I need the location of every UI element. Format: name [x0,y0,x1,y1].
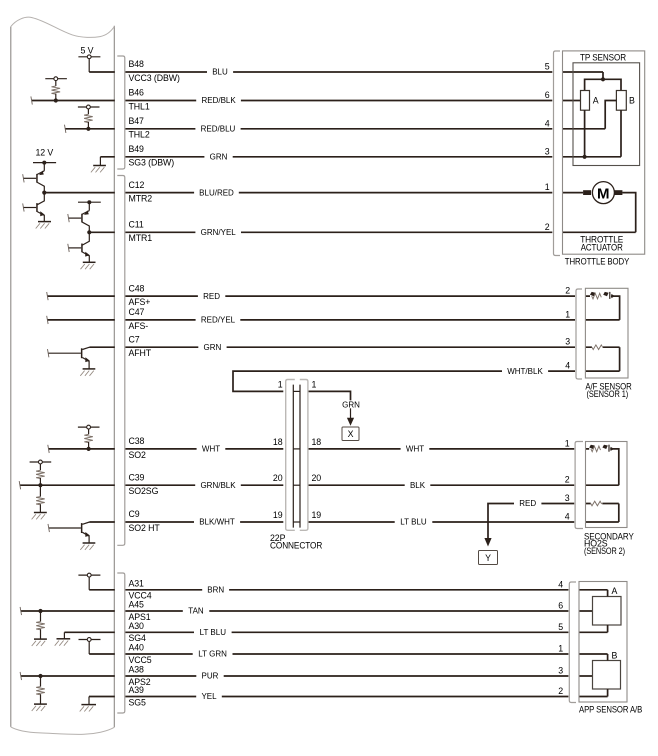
svg-text:BLU/RED: BLU/RED [199,188,234,197]
svg-text:X: X [348,429,354,439]
ground for Q4 [81,262,96,269]
wire color BLK [405,481,431,489]
SO2 resistor [84,434,93,442]
svg-text:RED: RED [519,499,536,508]
svg-text:WHT/BLK: WHT/BLK [507,367,543,376]
wire color RED/YEL [196,316,241,324]
CONNECTOR BRACKETS [117,51,583,713]
svg-text:C47: C47 [129,307,145,317]
wire end marker C39 [19,481,20,489]
wire color LT BLU (HO2S) [395,518,433,526]
wire RED row y=503.5 with elbow to Y arrow [488,504,619,539]
wire C47 AFS- RED/YEL row y=319.9 [47,319,619,321]
svg-text:B47: B47 [129,116,145,126]
A/F sensor connector bracket [576,289,582,379]
APP sensor B element [593,661,621,690]
svg-text:TP SENSOR: TP SENSOR [580,52,626,62]
SO2SG lower resistor [39,485,41,496]
APP B bottom lead [607,689,609,697]
TP bottom bus from pin3 row [585,110,621,157]
wire C12 MTR2 BLU/RED row y=192.6 [44,192,583,194]
secondary HO2S connector bracket [575,442,583,529]
svg-text:VCC5: VCC5 [129,655,152,665]
5V power symbol [78,55,100,72]
ground for APS1 [32,639,47,646]
wire B46 THL1 RED/BLK row y=100.5 [32,100,581,102]
wire end marker A45 [20,607,21,615]
svg-text:2: 2 [565,286,570,296]
throttle body connector bracket [554,51,561,256]
svg-text:C9: C9 [129,509,140,519]
VCC5 power symbol [79,638,101,654]
TP sensor top bus [585,72,621,91]
svg-text:4: 4 [565,512,570,522]
ECM INTERNALS [19,55,106,712]
A/F sensor cell (pin2-pin1 loop) [590,292,620,320]
APP sensor connector bracket [569,582,576,703]
22P pin 1 tick [293,390,300,392]
wire color RED/BLK [196,96,241,104]
svg-text:PUR: PUR [202,672,219,681]
svg-text:1: 1 [545,182,550,192]
RIGHT BOXES [563,51,645,702]
svg-text:BRN: BRN [207,586,224,595]
svg-text:C12: C12 [129,180,145,190]
svg-text:A40: A40 [129,643,145,653]
svg-text:C39: C39 [129,472,145,482]
svg-text:ACTUATOR: ACTUATOR [581,242,623,252]
node junction on C38 [87,447,91,451]
svg-text:6: 6 [545,90,550,100]
svg-text:B: B [629,96,635,106]
wire C38 SO2 WHT row y=448.9 [49,448,590,450]
svg-text:BLK: BLK [410,481,426,490]
Y reference box [479,551,498,565]
ground for Q6 [80,543,95,550]
wire color LT GRN [193,650,233,658]
wire C48 AFS+ RED row y=296.1 [47,295,590,297]
22P pin 20 tick [293,484,300,486]
svg-text:A: A [593,96,599,106]
TP wiper B link from pin4 row [605,101,616,129]
motor return wire to pin2 row [622,193,635,233]
wire A38 APS2 PUR row y=676 [21,675,593,677]
wire color BLU/RED [194,189,239,197]
THL1 resistor [52,86,61,94]
svg-text:APP SENSOR A/B: APP SENSOR A/B [579,705,642,715]
svg-text:GRN: GRN [204,343,222,352]
APP B top lead [607,654,609,661]
wire A39 SG5 YEL row y=696.5 [89,696,608,698]
node junction on C39 [38,483,42,487]
svg-text:3: 3 [565,493,570,503]
APP A top lead [607,590,609,597]
svg-text:THL1: THL1 [129,101,150,111]
svg-text:19: 19 [273,510,283,520]
svg-text:GRN/BLK: GRN/BLK [200,481,236,490]
svg-text:GRN: GRN [342,400,360,409]
node on TP bottom bus [583,155,587,159]
resistor B (TP sensor) [616,91,626,111]
GRN label on X drop [341,400,361,408]
APS2 pull-down resistor [38,674,42,678]
wire end marker C38 [48,445,49,453]
SG3 ground [91,157,106,173]
node junction on B47 [86,127,90,131]
wire color GRN [204,153,232,161]
svg-text:MTR2: MTR2 [129,194,153,204]
wire color YEL [196,692,222,700]
svg-text:1: 1 [565,438,570,448]
svg-text:Y: Y [485,553,491,563]
svg-text:MTR1: MTR1 [129,233,153,243]
svg-text:20: 20 [312,473,322,483]
svg-text:B48: B48 [129,59,145,69]
svg-text:A45: A45 [129,600,145,610]
svg-text:M: M [597,185,610,202]
HO2S heater element [591,501,602,506]
APP sensor A element [593,597,622,626]
22P pin 19 tick [293,521,300,523]
ground for Q5 [80,369,95,376]
svg-text:4: 4 [565,361,570,371]
svg-text:WHT: WHT [202,445,220,454]
svg-text:C38: C38 [129,436,145,446]
svg-text:B46: B46 [129,88,145,98]
A/F heater element [592,345,603,350]
svg-text:YEL: YEL [201,692,217,701]
wire color RED/BLU [195,125,240,133]
wire B49 SG3 GRN row y=156.8 [100,156,621,158]
svg-text:A39: A39 [129,685,145,695]
wire color WHT left [197,445,226,453]
wire A40 VCC5 LT-GRN row y=654 [89,653,607,655]
node junction on C11 [87,230,91,234]
wire color GRN (AFHT) [198,343,226,351]
APP SENSOR box [579,582,627,703]
resistor A (TP sensor) [581,91,590,111]
THL1 pull-up: power symbol [45,77,67,86]
wire color PUR [196,672,223,680]
svg-text:2: 2 [558,686,563,696]
wire B47 THL2 RED/BLU row y=128.8 [65,128,605,130]
12V power bar (MTR1 pair) [78,200,101,210]
wire color WHT/BLK [502,367,548,375]
svg-text:BLK/WHT: BLK/WHT [199,518,235,527]
svg-text:C7: C7 [129,334,140,344]
wire color RED [198,292,225,300]
transistor Q4 (NPN, MTR1 low side) [68,232,90,262]
svg-text:GRN: GRN [210,153,228,162]
svg-text:2: 2 [565,475,570,485]
TP SENSOR inner box [573,63,640,166]
svg-text:SG5: SG5 [129,697,147,707]
wire color GRN/YEL [195,228,241,236]
svg-text:SO2SG: SO2SG [129,486,159,496]
svg-text:C48: C48 [129,283,145,293]
transistor Q6 (NPN, SO2HT driver) [48,522,90,543]
THL2 resistor [84,114,93,122]
svg-text:RED/BLK: RED/BLK [201,96,236,105]
transistor Q5 (NPN, AFHT driver) [48,347,90,369]
svg-text:A31: A31 [129,578,145,588]
wire color LT BLU (APP) [194,628,232,636]
wire C11 MTR1 GRN/YEL row y=232.3 [89,231,635,233]
A/F heater return [619,347,621,371]
22P connector right shell [300,380,308,531]
svg-text:A38: A38 [129,665,145,675]
APP A bottom lead [607,625,609,632]
wire color WHT right [401,445,430,453]
ground for Q2 [36,222,51,229]
X reference box [342,427,359,441]
svg-text:SO2 HT: SO2 HT [129,523,161,533]
svg-text:AFS+: AFS+ [129,297,151,307]
wire C9 SO2HT BLK/WHT LT-BLU row y=522 [90,521,619,523]
wire 22P pin1 right to X arrow [308,391,350,401]
THROTTLE BODY box [563,51,645,254]
svg-text:(SENSOR 1): (SENSOR 1) [587,389,629,399]
svg-text:1: 1 [558,644,563,654]
svg-text:18: 18 [273,437,283,447]
wire C39 SO2SG GRN/BLK row y=485.2 [20,484,619,486]
svg-text:2: 2 [545,222,550,232]
THL2 pull-up: power symbol [78,105,100,114]
svg-text:RED/YEL: RED/YEL [201,316,236,325]
APS1 pull-down resistor [38,609,42,613]
svg-text:A30: A30 [129,621,145,631]
ground for SO2SG divider [32,513,47,520]
wire WHT/BLK row y=371.1 with elbow to 22P pin1 [233,371,620,391]
wire color BRN [202,586,229,594]
svg-text:5: 5 [545,62,550,72]
svg-text:B: B [612,650,618,660]
svg-text:4: 4 [558,579,563,589]
svg-text:(SENSOR 2): (SENSOR 2) [584,546,625,556]
svg-text:RED/BLU: RED/BLU [201,125,236,134]
svg-text:5 V: 5 V [81,45,94,55]
svg-text:18: 18 [312,437,322,447]
svg-text:6: 6 [558,601,563,611]
svg-text:LT BLU: LT BLU [200,628,227,637]
wire B48 VCC3 BLU row y=72 [89,71,603,73]
SO2 pull-up: power symbol [78,425,100,434]
svg-text:1: 1 [312,379,317,389]
svg-text:CONNECTOR: CONNECTOR [270,541,322,551]
ECM connector A bracket [117,573,125,713]
ground for APS2 [32,704,47,711]
wire end marker C48 [47,292,48,300]
wire end marker B47 [65,125,66,133]
svg-text:20: 20 [273,473,283,483]
22P CONNECTOR [286,380,498,565]
wire end marker A38 [20,672,21,680]
SG5 ground [80,697,96,712]
svg-text:THROTTLE BODY: THROTTLE BODY [565,256,630,266]
SECONDARY HO2S box [586,442,628,528]
svg-text:WHT: WHT [406,445,424,454]
HO2S cell (pin1-pin2 loop) [589,445,619,486]
svg-text:5: 5 [558,622,563,632]
transistor Q1 (PNP, MTR2 high side) [23,171,45,193]
throttle motor M [583,182,622,204]
svg-text:SO2: SO2 [129,450,147,460]
svg-text:GRN/YEL: GRN/YEL [201,228,237,237]
svg-text:4: 4 [545,118,550,128]
svg-text:1: 1 [565,309,570,319]
wire C7 AFHT GRN row y=347.2 [90,346,620,348]
22P connector left shell [286,380,295,531]
wire color GRN/BLK [195,481,241,489]
wire color TAN [183,607,210,615]
svg-text:3: 3 [545,146,550,156]
arrow to Y [484,538,491,547]
transistor Q2 (NPN, MTR2 low side) [23,193,45,222]
A/F SENSOR box [585,288,628,378]
svg-text:C11: C11 [129,220,144,230]
HO2S heater return [618,504,620,523]
12V power bar [33,161,56,171]
svg-text:AFHT: AFHT [129,348,152,358]
node junction on B46 [54,98,58,102]
svg-text:3: 3 [565,337,570,347]
wire color BLU [207,68,233,76]
transistor Q3 (PNP, MTR1 high side) [68,210,90,232]
svg-text:1: 1 [278,379,283,389]
svg-text:TAN: TAN [188,607,204,616]
wire end marker B46 [31,96,32,104]
svg-text:VCC3 (DBW): VCC3 (DBW) [129,73,180,83]
svg-text:RED: RED [203,292,220,301]
svg-text:LT GRN: LT GRN [198,650,227,659]
svg-text:THL2: THL2 [129,130,150,140]
wire end marker C47 [47,316,48,324]
ECM connector B bracket [117,56,125,169]
22P connector pin rails [293,385,300,528]
22P pin 18 tick [293,448,300,450]
wire color BLK/WHT [194,518,240,526]
svg-text:BLU: BLU [212,68,228,77]
wire A45 APS1 TAN row y=611 [21,610,593,612]
wire color RED (HO2S) [514,499,541,507]
VCC4 power symbol [78,573,100,590]
svg-text:3: 3 [558,666,563,676]
wire A31 VCC4 BRN row y=589.8 [89,589,607,591]
svg-text:12 V: 12 V [35,148,53,158]
ECM box (torn-edge module outline) [11,17,115,734]
svg-text:A: A [612,586,618,596]
node junction on C12 [42,191,46,195]
ECM connector C bracket [117,176,125,546]
wire A30 SG4 LT-BLU row y=632.3 [64,631,607,633]
svg-text:LT BLU: LT BLU [400,518,427,527]
svg-text:AFS-: AFS- [129,321,149,331]
node on TP bus [601,77,605,81]
SG4 ground [55,632,70,645]
svg-text:B49: B49 [129,144,145,154]
arrow to X [347,418,354,426]
SO2SG upper resistor [36,470,45,478]
svg-text:19: 19 [312,510,322,520]
SO2SG pull-up: power symbol [30,460,52,470]
svg-text:SG3 (DBW): SG3 (DBW) [129,158,175,168]
